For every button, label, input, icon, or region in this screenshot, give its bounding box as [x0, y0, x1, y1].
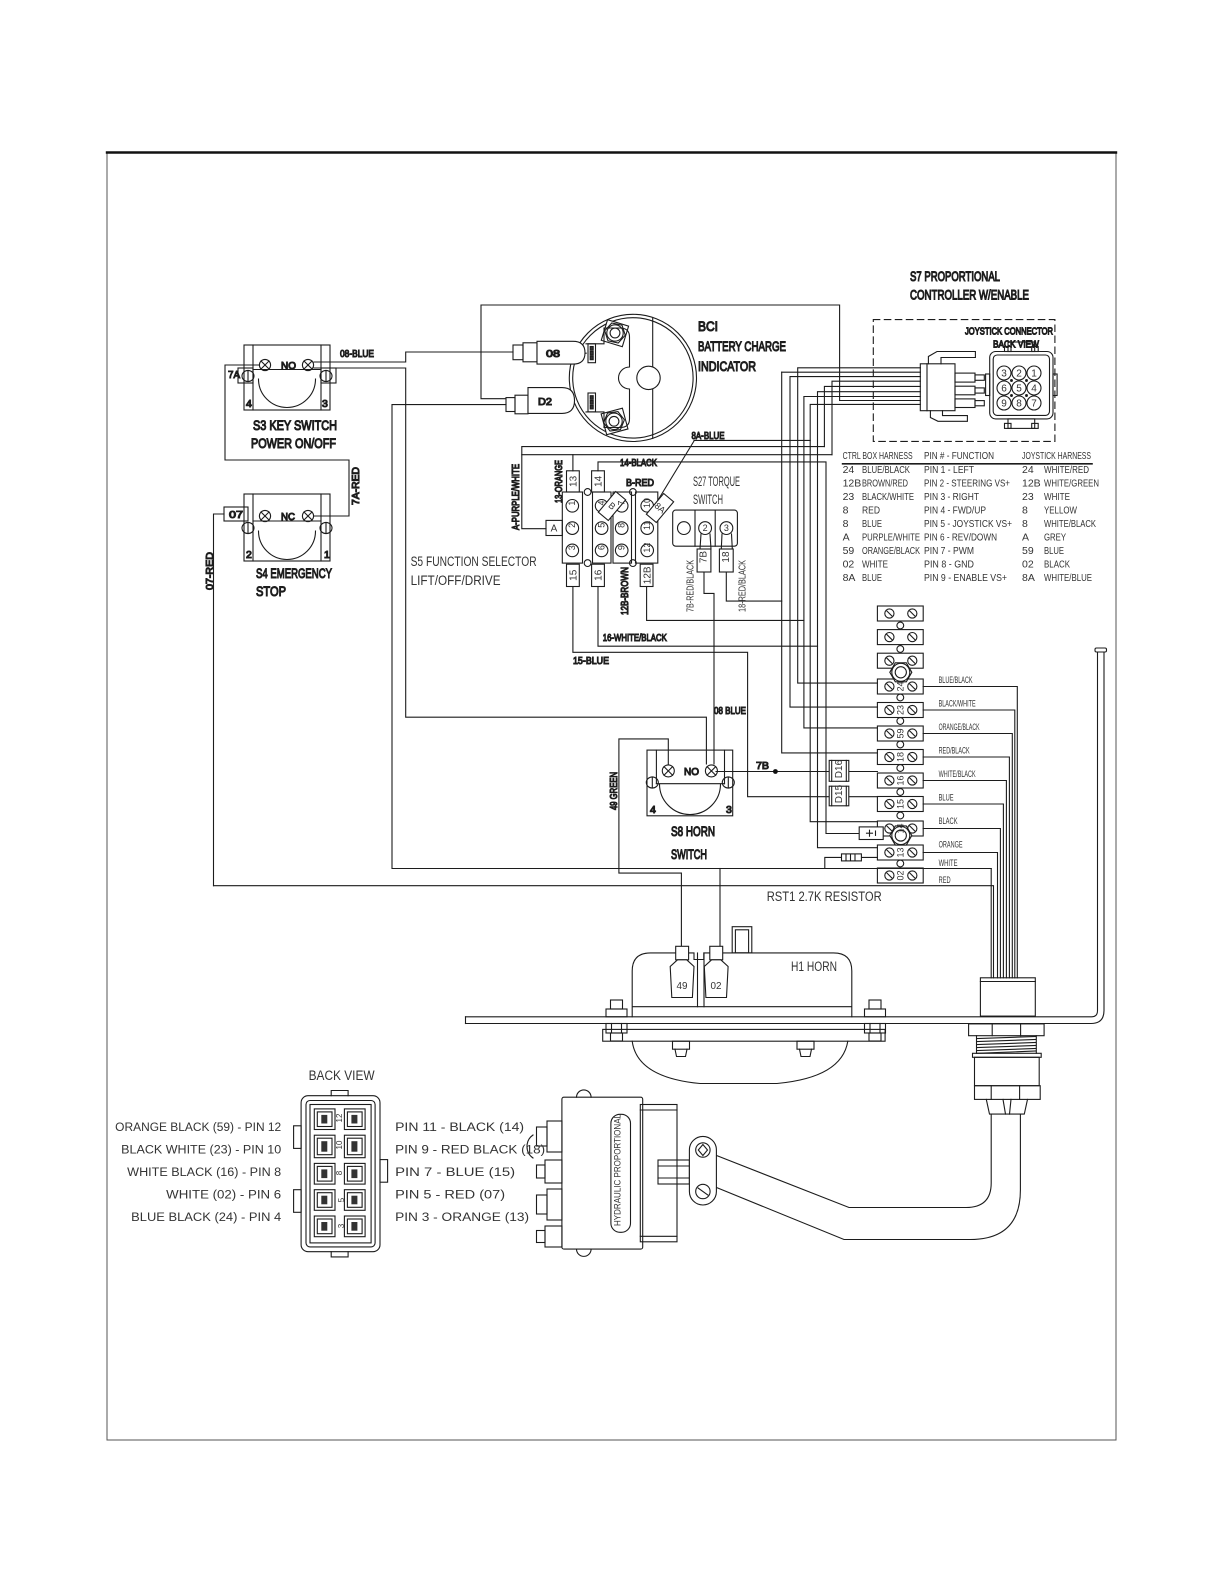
svg-text:2: 2 [567, 523, 577, 528]
svg-text:1: 1 [324, 549, 330, 561]
svg-text:59: 59 [1022, 545, 1034, 557]
back view pin numbers [335, 1113, 346, 1228]
svg-text:8: 8 [1022, 505, 1028, 517]
controller bundle wire pin5 [824, 386, 920, 446]
svg-text:3: 3 [1001, 369, 1007, 380]
hydraulic block pins [527, 1121, 562, 1247]
svg-text:WHITE: WHITE [1044, 491, 1070, 503]
wire D2 loop to controller bundle [481, 305, 840, 401]
svg-text:4: 4 [246, 398, 252, 410]
svg-text:NO: NO [684, 766, 699, 778]
svg-text:BLUE BLACK (24) - PIN 4: BLUE BLACK (24) - PIN 4 [131, 1212, 282, 1224]
svg-text:2: 2 [703, 523, 708, 533]
function selector S5 body [562, 489, 658, 567]
strip mounting hex nut lower [890, 826, 912, 845]
pin slot [344, 1190, 365, 1211]
wire 7B net: horn switch to diode D16 to strip row 16 [716, 771, 877, 773]
svg-text:18: 18 [721, 551, 732, 563]
svg-text:PIN 11 - BLACK (14): PIN 11 - BLACK (14) [395, 1122, 524, 1134]
svg-text:BLACK WHITE (23) - PIN 10: BLACK WHITE (23) - PIN 10 [121, 1145, 281, 1157]
svg-text:BROWN/RED: BROWN/RED [862, 478, 908, 490]
svg-text:02: 02 [843, 559, 855, 571]
svg-text:15-BLUE: 15-BLUE [573, 655, 609, 667]
wire 8A-BLUE: S5 blade 8A diagonal to bundle [655, 440, 810, 505]
svg-text:7B-RED/BLACK: 7B-RED/BLACK [685, 560, 697, 612]
strip output wire 16 [923, 781, 1006, 978]
svg-text:CTRL BOX HARNESS: CTRL BOX HARNESS [843, 450, 913, 462]
battery charge indicator BCI body [569, 314, 696, 441]
svg-text:4: 4 [596, 500, 606, 505]
svg-text:BATTERY CHARGE: BATTERY CHARGE [698, 339, 786, 354]
S7 plug pin blade 1 [955, 373, 984, 382]
wire 16-WHITE/BLACK: S5 terminal 16 to bundle [598, 587, 818, 647]
svg-text:S8 HORN: S8 HORN [671, 824, 715, 839]
strip output wire 14 [923, 829, 1000, 978]
S5 terminal A [546, 520, 562, 535]
svg-text:A-PURPLE/WHITE: A-PURPLE/WHITE [510, 464, 522, 530]
gland threads [977, 1036, 1037, 1054]
svg-text:9: 9 [616, 545, 626, 550]
svg-text:NO: NO [281, 360, 296, 372]
svg-text:8A: 8A [843, 572, 856, 584]
svg-text:S7 PROPORTIONAL: S7 PROPORTIONAL [910, 269, 1000, 284]
svg-text:D2: D2 [538, 396, 552, 408]
svg-text:RED: RED [939, 875, 951, 885]
svg-text:BLACK: BLACK [939, 816, 958, 826]
svg-text:BACK VIEW: BACK VIEW [309, 1068, 375, 1083]
svg-text:BLUE/BLACK: BLUE/BLACK [939, 675, 973, 685]
S5 numbers [551, 475, 668, 584]
svg-text:08: 08 [546, 348, 560, 360]
wire 12B-BROWN: S5 terminal 12B to bundle [647, 587, 804, 621]
svg-text:BLACK: BLACK [1044, 559, 1070, 571]
pin slot [314, 1109, 335, 1130]
svg-text:24: 24 [1022, 464, 1034, 476]
strip screws [885, 609, 917, 880]
S5 terminal 14 [592, 471, 605, 492]
svg-text:12: 12 [642, 543, 652, 553]
strip output wire 24 [923, 687, 1017, 978]
S7 plug body [920, 352, 975, 422]
strip spacer circles [897, 622, 904, 867]
strip output wire 02 white [923, 868, 991, 870]
center stud nuts [673, 1041, 815, 1056]
svg-text:23: 23 [843, 491, 855, 503]
svg-text:S4 EMERGENCY: S4 EMERGENCY [256, 566, 332, 581]
BCI terminal D2 spade [506, 388, 575, 414]
S5 contact circles column 2 [595, 500, 608, 513]
svg-text:08-BLUE: 08-BLUE [340, 348, 374, 360]
S5 blade 8A angled [646, 493, 673, 522]
svg-text:7B: 7B [699, 551, 710, 564]
svg-text:24: 24 [896, 681, 906, 691]
svg-text:2: 2 [1016, 369, 1022, 380]
S5 blade B angled [598, 491, 625, 520]
svg-text:9: 9 [1001, 399, 1007, 410]
horn dome [632, 1041, 848, 1083]
svg-text:HYDRAULIC PROPORTIONAL: HYDRAULIC PROPORTIONAL [612, 1114, 623, 1226]
S7 plug pin blade 3 [955, 399, 984, 408]
hydraulic proportional block [562, 1090, 643, 1256]
svg-text:BLACK/WHITE: BLACK/WHITE [939, 699, 976, 709]
S27 terminal 18 [719, 534, 733, 572]
pin slot [344, 1163, 365, 1184]
wire 07: S4 07 terminal down to red bus [214, 514, 225, 886]
cable clamp [689, 1136, 716, 1205]
svg-text:A: A [1022, 532, 1029, 544]
svg-text:4: 4 [650, 804, 656, 816]
gland body [975, 1057, 1040, 1085]
svg-text:1: 1 [567, 501, 577, 506]
wire 18-RED/BLACK: S27 to strip row 18 [726, 572, 781, 601]
wire A-PURPLE/WHITE: S5 terminal A to bundle [522, 447, 825, 529]
wire 08-BLUE: S3 right screw to BCI 08 blade [314, 352, 513, 362]
svg-text:ORANGE BLACK (59) - PIN 12: ORANGE BLACK (59) - PIN 12 [115, 1122, 281, 1134]
svg-text:8: 8 [1022, 518, 1028, 530]
svg-text:8: 8 [616, 523, 626, 528]
svg-text:59: 59 [896, 728, 906, 738]
svg-text:JOYSTICK CONNECTOR: JOYSTICK CONNECTOR [965, 326, 1053, 338]
S7 dashed enclosure [873, 320, 1055, 442]
S5 contact circles column 3 [615, 500, 628, 513]
svg-text:3: 3 [322, 398, 328, 410]
diode D16 [829, 760, 849, 781]
svg-text:16-WHITE/BLACK: 16-WHITE/BLACK [603, 632, 667, 644]
strip wire color labels [939, 675, 980, 885]
S27 terminal 7B [697, 534, 711, 572]
svg-text:CONTROLLER W/ENABLE: CONTROLLER W/ENABLE [910, 288, 1029, 303]
BCI inner bracket shape [586, 328, 630, 428]
back view left pin labels [115, 1122, 282, 1224]
svg-text:10: 10 [335, 1140, 344, 1149]
svg-text:PIN 7 - PWM: PIN 7 - PWM [924, 545, 974, 557]
controller bundle wire pin8 [840, 400, 921, 402]
S27 numbers [699, 523, 732, 563]
svg-text:10: 10 [642, 498, 652, 508]
svg-text:02: 02 [896, 870, 906, 880]
svg-text:BLUE: BLUE [939, 793, 954, 803]
S5 contact circles column 4 [641, 500, 654, 513]
svg-text:BLUE: BLUE [862, 518, 882, 530]
svg-text:14: 14 [594, 475, 605, 487]
svg-text:PIN 5 - JOYSTICK VS+: PIN 5 - JOYSTICK VS+ [924, 518, 1012, 530]
strip output wire 23 [923, 710, 1015, 978]
strip output wire 13 [923, 853, 997, 978]
wire 08 to horn switch: S3 right screw down and across [314, 368, 706, 764]
svg-text:8A: 8A [1022, 572, 1035, 584]
svg-text:STOP: STOP [256, 584, 286, 599]
svg-text:D16: D16 [834, 759, 845, 778]
BCI bottom hex nut [602, 411, 625, 432]
svg-text:RED/BLACK: RED/BLACK [939, 746, 970, 756]
BCI blade slot lower [588, 393, 596, 412]
svg-text:PIN 6 - REV/DOWN: PIN 6 - REV/DOWN [924, 532, 997, 544]
svg-text:RST1 2.7K RESISTOR: RST1 2.7K RESISTOR [767, 889, 882, 904]
diode D15 [829, 786, 849, 806]
svg-text:H1 HORN: H1 HORN [791, 959, 837, 974]
controller bundle wire pin3 [790, 377, 920, 707]
svg-text:PIN 8 - GND: PIN 8 - GND [924, 559, 974, 571]
svg-text:12B: 12B [1022, 478, 1041, 490]
svg-text:08 BLUE: 08 BLUE [714, 705, 746, 717]
controller bundle wire pin7 [804, 397, 920, 728]
wire 7A: S3 left screw to S4 right screw [225, 365, 349, 516]
wire 14-BLACK: S5 terminal 14 across to 14 block [598, 462, 859, 834]
wire 49-GREEN: S8 left screw to horn spade 49 [619, 739, 682, 946]
svg-text:11: 11 [642, 521, 652, 530]
svg-text:PIN 9 - RED BLACK (18): PIN 9 - RED BLACK (18) [395, 1145, 545, 1157]
svg-text:8: 8 [843, 505, 849, 517]
wire 15-BLUE: S5 terminal 15 to diode D15 and strip [573, 587, 878, 797]
svg-text:WHITE/BLACK: WHITE/BLACK [1044, 518, 1096, 530]
svg-text:8: 8 [1016, 399, 1022, 410]
svg-text:12B: 12B [843, 478, 862, 490]
svg-text:12B: 12B [642, 566, 653, 584]
svg-text:13: 13 [569, 475, 580, 487]
table header rule [843, 463, 1092, 465]
controller bundle wire pin1 [798, 368, 921, 683]
svg-text:ORANGE/BLACK: ORANGE/BLACK [939, 722, 980, 732]
svg-text:2: 2 [246, 549, 252, 561]
svg-text:07-RED: 07-RED [204, 552, 216, 590]
svg-text:07: 07 [229, 509, 243, 521]
svg-text:WHITE/RED: WHITE/RED [1044, 464, 1089, 476]
svg-text:INDICATOR: INDICATOR [698, 359, 756, 374]
back view connector body [294, 1091, 388, 1257]
svg-text:8A-BLUE: 8A-BLUE [692, 430, 725, 442]
svg-text:B-RED: B-RED [626, 477, 654, 489]
svg-text:BCI: BCI [698, 319, 718, 334]
svg-text:3: 3 [726, 804, 732, 816]
svg-text:WHITE: WHITE [862, 559, 888, 571]
pin slot [344, 1216, 365, 1237]
gland lower ring [975, 1086, 1041, 1100]
svg-text:PIN 3 - ORANGE (13): PIN 3 - ORANGE (13) [395, 1212, 529, 1224]
svg-text:RED: RED [862, 505, 880, 517]
right plate bolt [865, 1000, 886, 1041]
svg-text:5: 5 [1016, 384, 1022, 395]
wire D2 white bus: BCI D2 blade to cable gland [392, 405, 991, 978]
S4 terminal 07 box [224, 507, 248, 521]
svg-text:18: 18 [896, 752, 906, 762]
svg-text:JOYSTICK HARNESS: JOYSTICK HARNESS [1022, 450, 1091, 462]
svg-text:SWITCH: SWITCH [693, 492, 723, 507]
torque switch S27 body [673, 510, 738, 546]
svg-text:02: 02 [711, 980, 722, 992]
controller bundle wire pin9 [810, 404, 920, 821]
strip output wire 59 [923, 734, 1012, 978]
hydraulic block right section [640, 1105, 677, 1242]
valve spade tab [658, 1160, 689, 1184]
svg-text:24: 24 [843, 464, 855, 476]
S5 terminal 16 [592, 564, 605, 586]
svg-text:5: 5 [337, 1197, 346, 1202]
svg-text:PURPLE/WHITE: PURPLE/WHITE [862, 532, 920, 544]
polarity box on 14 line [859, 827, 883, 840]
emergency stop S4 [242, 494, 332, 561]
svg-text:WHITE/BLACK: WHITE/BLACK [939, 769, 976, 779]
svg-text:POWER ON/OFF: POWER ON/OFF [251, 436, 336, 451]
svg-text:WHITE: WHITE [939, 858, 958, 868]
svg-text:BLUE/BLACK: BLUE/BLACK [862, 464, 910, 476]
cable to hydraulic valve [716, 1114, 991, 1207]
svg-text:PIN 2 - STEERING VS+: PIN 2 - STEERING VS+ [924, 478, 1010, 490]
svg-text:18-RED/BLACK: 18-RED/BLACK [737, 560, 749, 612]
svg-text:PIN # - FUNCTION: PIN # - FUNCTION [924, 450, 994, 462]
svg-text:BLUE: BLUE [1044, 545, 1064, 557]
wire 7B: S27 to horn switch right screw [704, 572, 714, 764]
pin slot [314, 1163, 335, 1184]
svg-text:7: 7 [1031, 399, 1037, 410]
red bus output [214, 886, 994, 978]
svg-text:WHITE BLACK (16) - PIN 8: WHITE BLACK (16) - PIN 8 [127, 1167, 281, 1179]
svg-text:16: 16 [896, 775, 906, 785]
svg-text:ORANGE/BLACK: ORANGE/BLACK [862, 545, 920, 557]
svg-text:S3 KEY SWITCH: S3 KEY SWITCH [253, 418, 337, 433]
mounting plate [466, 648, 1107, 1024]
svg-text:14: 14 [896, 823, 906, 833]
S5 contact circles column 1 [566, 500, 579, 513]
svg-text:7A-RED: 7A-RED [350, 467, 362, 505]
svg-text:NC: NC [281, 511, 295, 523]
svg-text:1: 1 [1031, 369, 1037, 380]
svg-text:YELLOW: YELLOW [1044, 505, 1077, 517]
terminal strip blocks [877, 606, 923, 883]
svg-text:49: 49 [677, 980, 688, 992]
wire pin2 tail to row 18 [782, 372, 878, 753]
BCI center circle [637, 366, 660, 389]
svg-text:WHITE/BLUE: WHITE/BLUE [1044, 572, 1092, 584]
svg-text:PIN 3 - RIGHT: PIN 3 - RIGHT [924, 491, 979, 503]
svg-text:WHITE (02) - PIN 6: WHITE (02) - PIN 6 [166, 1190, 281, 1202]
svg-text:8: 8 [843, 518, 849, 530]
cable gland block [980, 978, 1035, 1016]
svg-text:SWITCH: SWITCH [671, 847, 707, 862]
svg-text:7B: 7B [756, 760, 769, 772]
back view right pin labels [395, 1122, 545, 1224]
BCI terminal 08 spade [513, 341, 585, 364]
svg-text:13: 13 [896, 847, 906, 857]
svg-text:A: A [551, 524, 558, 535]
wire 02 spade branch [719, 869, 721, 947]
svg-text:3: 3 [337, 1223, 346, 1228]
pin slot [314, 1216, 335, 1237]
svg-text:S5 FUNCTION SELECTOR: S5 FUNCTION SELECTOR [411, 554, 537, 569]
svg-text:GREY: GREY [1044, 532, 1066, 544]
svg-text:BLUE: BLUE [862, 572, 882, 584]
svg-text:PIN 7 - BLUE (15): PIN 7 - BLUE (15) [395, 1167, 515, 1179]
svg-text:5: 5 [596, 523, 606, 528]
controller bundle wire pin2 [782, 371, 921, 373]
svg-text:3: 3 [567, 545, 577, 550]
pin slot [344, 1135, 365, 1158]
lower flange [603, 1029, 885, 1041]
joystick pins 3 2 1 / 6 5 4 / 9 8 7 [997, 366, 1041, 410]
svg-text:LIFT/OFF/DRIVE: LIFT/OFF/DRIVE [411, 573, 501, 588]
horn spade 49 [670, 946, 694, 997]
svg-text:S27 TORQUE: S27 TORQUE [693, 474, 740, 489]
svg-text:8: 8 [335, 1170, 344, 1175]
horn H1 body [632, 953, 852, 1017]
gland hex nut [969, 1024, 1045, 1036]
svg-text:23: 23 [1022, 491, 1034, 503]
svg-text:PIN 4 - FWD/UP: PIN 4 - FWD/UP [924, 505, 986, 517]
BCI plus mark [579, 352, 586, 354]
svg-text:23: 23 [896, 705, 906, 715]
border frame [107, 152, 1116, 1440]
strip terminal numbers [896, 681, 906, 880]
svg-text:12B-BROWN: 12B-BROWN [619, 567, 631, 615]
svg-text:ORANGE: ORANGE [939, 840, 963, 850]
BCI blade slot upper [588, 344, 596, 363]
svg-text:A: A [843, 532, 850, 544]
gland flange [973, 1053, 1042, 1057]
svg-text:12: 12 [335, 1113, 344, 1122]
strip mounting hex nut upper [890, 663, 912, 682]
controller bundle wire pin4 [832, 381, 920, 455]
svg-text:13-ORANGE: 13-ORANGE [553, 460, 565, 503]
svg-text:7A: 7A [228, 369, 240, 381]
BCI top hex nut [603, 322, 627, 344]
strip output wire 18 [923, 757, 1009, 978]
S5 terminal 15 [567, 564, 580, 586]
pin slot [344, 1109, 365, 1130]
harness cross reference table [843, 450, 1099, 584]
svg-text:WHITE/GREEN: WHITE/GREEN [1044, 478, 1099, 490]
horn switch S8 [646, 750, 734, 816]
svg-text:59: 59 [843, 545, 855, 557]
horn top cap [732, 927, 752, 953]
svg-text:15: 15 [896, 799, 906, 809]
svg-text:BLACK/WHITE: BLACK/WHITE [862, 491, 914, 503]
svg-text:7: 7 [616, 500, 626, 505]
svg-text:6: 6 [1001, 384, 1007, 395]
S7 plug pin blade 2 [955, 386, 984, 395]
svg-text:14-BLACK: 14-BLACK [620, 457, 657, 469]
svg-text:4: 4 [1031, 384, 1037, 395]
S5 terminal 12B [640, 564, 653, 586]
gland strain fingers [986, 1099, 1027, 1114]
horn spade 02 [704, 946, 728, 997]
svg-text:6: 6 [596, 545, 606, 550]
svg-text:PIN 5 - RED (07): PIN 5 - RED (07) [395, 1190, 505, 1202]
svg-text:15: 15 [569, 569, 580, 581]
svg-text:PIN 9 - ENABLE VS+: PIN 9 - ENABLE VS+ [924, 572, 1007, 584]
svg-text:3: 3 [724, 523, 729, 533]
svg-text:D15: D15 [834, 784, 845, 803]
svg-text:49 GREEN: 49 GREEN [608, 772, 620, 810]
joystick connector body [986, 342, 1058, 428]
pin slot [314, 1190, 335, 1211]
svg-text:16: 16 [594, 569, 605, 581]
S5 terminal 13 [567, 471, 580, 492]
wire 13-ORANGE: S5 terminal 13 to bundle [573, 455, 832, 471]
junction dot 7B [773, 769, 778, 774]
controller bundle wire pin6 [818, 392, 921, 848]
key switch S3 [238, 345, 336, 410]
svg-text:02: 02 [1022, 559, 1034, 571]
left plate bolt [606, 1000, 627, 1041]
resistor RST1 body [825, 854, 878, 869]
svg-text:PIN 1 - LEFT: PIN 1 - LEFT [924, 464, 974, 476]
pin slot [314, 1135, 335, 1158]
strip output wire 15 [923, 804, 1003, 978]
